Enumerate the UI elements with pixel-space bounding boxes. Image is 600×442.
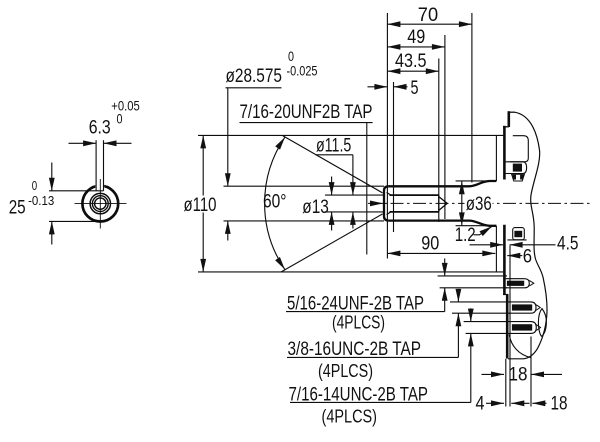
hole mouth chamfer bottom: [387, 212, 391, 215]
dia 36 extension top: [456, 180, 489, 182]
main centerline dash-dot: [368, 202, 592, 204]
dia 11.5 underline: [316, 154, 353, 156]
dim 90 line: [387, 252, 495, 254]
7/16-14 stub arrow down: [470, 308, 472, 321]
register face lower: [495, 226, 497, 272]
3/8 thread bar: [512, 304, 532, 310]
dim 5 right arrow: [394, 86, 408, 88]
5/16 underline: [286, 311, 445, 313]
dia 11.5 up arrow: [352, 212, 354, 229]
7/16 hole tip: [536, 325, 540, 331]
outer wall wavy curve: [508, 112, 547, 359]
rib leaf section: [538, 309, 546, 337]
7/16-14 underline: [290, 401, 471, 403]
dia 28.575 arrow up: [227, 221, 229, 241]
dim 43.5 line: [387, 70, 438, 72]
cone line lower: [281, 214, 382, 272]
end-view horizontal centerline: [75, 203, 127, 205]
5/16 hole tip: [529, 280, 534, 286]
lower seal housing outline: [513, 228, 525, 240]
register face upper: [495, 135, 497, 181]
60 deg arc: [265, 137, 285, 269]
svg-text:ø110: ø110: [184, 194, 217, 216]
label dia 28.575 underline: [226, 87, 282, 89]
hole edge extension top: [325, 194, 384, 196]
5/16 leader arrow up: [444, 288, 446, 312]
shaft outline top: [389, 181, 497, 186]
mounting face step top thick: [507, 111, 510, 127]
upper bolt hole thread bar: [513, 164, 522, 172]
svg-text:18: 18: [509, 364, 528, 386]
dia 13 up arrow: [331, 212, 333, 231]
svg-text:25: 25: [9, 197, 26, 218]
dia 110 dim line lower: [202, 213, 204, 272]
dia 36 dim line with arrows: [461, 181, 463, 225]
shaft top edge extension to left: [224, 185, 385, 187]
dia 13 down arrow: [331, 177, 333, 196]
dim 25 arrow bottom: [51, 221, 53, 244]
face jog connector: [503, 294, 509, 296]
3/8 hole edge top: [450, 301, 510, 303]
ext line x=531 lower: [530, 337, 532, 407]
drill point base: [438, 195, 440, 212]
svg-text:70: 70: [418, 4, 438, 26]
dia 110 dim line upper: [202, 135, 204, 195]
svg-text:-0.13: -0.13: [28, 193, 54, 208]
mounting face thick upper: [503, 126, 506, 180]
svg-text:ø11.5: ø11.5: [316, 134, 351, 156]
mounting face thick lower (jogged): [506, 295, 509, 359]
shaft bottom edge extension to left: [224, 220, 385, 222]
dim 18 upper right arrow: [531, 373, 562, 375]
3/8 stub arrow down: [457, 289, 459, 302]
keyway slot side left: [95, 140, 97, 191]
svg-text:(4PLCS): (4PLCS): [332, 311, 385, 332]
shaft end face: [384, 186, 389, 220]
svg-text:(4PLCS): (4PLCS): [318, 360, 373, 381]
tapped hole top line: [390, 194, 439, 196]
keyway slot white gap: [95, 182, 104, 191]
dim 4 right arrow: [511, 402, 529, 404]
label 7/16-20 underline: [240, 122, 373, 124]
dia 28.575 leader arrow down: [227, 88, 229, 186]
flange front face: [509, 246, 511, 359]
svg-text:7/16-20UNF2B TAP: 7/16-20UNF2B TAP: [240, 101, 373, 123]
dim 4.5 right arrow and tail: [510, 244, 556, 246]
3/8 hole edge bottom: [452, 312, 510, 314]
svg-text:60°: 60°: [263, 191, 287, 213]
svg-text:0: 0: [288, 49, 294, 64]
5/16 upper stub arrow: [444, 259, 446, 276]
svg-text:43.5: 43.5: [395, 50, 427, 72]
5/16 hole edge top: [438, 275, 507, 277]
extension line x=446.1 (49): [444, 35, 446, 219]
shaft outline bottom: [389, 221, 497, 226]
svg-text:18: 18: [551, 392, 568, 414]
lower recess corner curve: [509, 335, 531, 358]
5/16 boss outline: [505, 279, 529, 288]
1.2 leader arrow: [474, 226, 492, 234]
7/16-14 leader arrow up: [470, 333, 472, 402]
dim 49 line: [387, 46, 445, 48]
svg-text:3/8-16UNC-2B TAP: 3/8-16UNC-2B TAP: [288, 338, 422, 360]
lower seal black: [514, 231, 522, 237]
svg-text:ø28.575: ø28.575: [226, 65, 283, 87]
drill point cone: [439, 197, 447, 211]
tapped hole bottom line: [390, 211, 439, 213]
dia 11.5 leader down arrow: [352, 155, 354, 195]
svg-text:0: 0: [32, 179, 37, 193]
inner cavity contour upper: [510, 136, 529, 162]
svg-text:5: 5: [411, 77, 419, 99]
dia 36 text background: [465, 195, 493, 212]
extension line x=393.5 (5mm): [393, 82, 395, 232]
thread major circle: [92, 196, 108, 212]
mounting face thick middle: [503, 225, 506, 295]
3/8 leader arrow up: [457, 313, 459, 357]
label 7/16-20 leader vertical: [366, 123, 368, 255]
dim 18 upper left arrow: [482, 373, 505, 375]
svg-text:90: 90: [421, 233, 439, 255]
svg-text:6: 6: [523, 245, 532, 267]
7/16-20 tap arrow into hole: [371, 202, 384, 204]
hole edge extension bottom: [325, 211, 384, 213]
3/8 boss outline: [509, 302, 536, 313]
seal black right: [520, 175, 523, 180]
cone line upper: [282, 135, 382, 193]
extension line shaft end x=387.4: [386, 13, 388, 259]
step connector: [503, 126, 509, 128]
hole mouth chamfer top: [387, 192, 391, 195]
dim 6.3 arrows: [69, 142, 97, 144]
upper bolt hole outline: [505, 162, 527, 174]
dim 6 right arrow: [507, 255, 522, 257]
ext line x=510 lower: [509, 359, 511, 407]
dia 110 extension bottom: [198, 271, 503, 273]
end-view vertical centerline: [99, 179, 101, 229]
3/8 hole tip: [536, 305, 540, 311]
svg-text:-0.025: -0.025: [287, 64, 318, 79]
keyway slot side right: [103, 140, 105, 191]
extension line x=440.6 (43.5): [438, 59, 440, 223]
svg-text:4.5: 4.5: [557, 232, 579, 254]
3/8 underline: [287, 356, 458, 358]
shaft end-view outer circle: [82, 186, 118, 222]
5/16 hole edge bottom: [440, 287, 507, 289]
5/16 thread bar: [507, 281, 524, 286]
7/16 thread bar: [512, 324, 532, 330]
tapped hole chamfer circle: [90, 193, 110, 213]
thread minor circle: [95, 198, 106, 209]
svg-text:ø36: ø36: [466, 193, 492, 215]
dim 70 line: [387, 23, 472, 25]
svg-text:ø13: ø13: [302, 196, 329, 218]
dim 4.5 left arrow: [470, 244, 504, 246]
svg-text:0: 0: [117, 112, 123, 127]
dia 110 extension top: [198, 134, 503, 136]
lower seal seat line: [507, 239, 526, 241]
7/16 boss outline: [510, 322, 537, 334]
dim 4 left arrow: [486, 402, 504, 404]
7/16 hole edge top: [464, 321, 510, 323]
dim 18 lower arrow: [532, 402, 546, 404]
ext line x=505.3 lower: [505, 359, 507, 407]
svg-text:1.2: 1.2: [455, 224, 476, 246]
dim 25 arrow top: [51, 163, 53, 191]
extension line x=471.9 (70): [471, 13, 473, 183]
dim 25 extension top (keyway flat): [49, 190, 104, 192]
oil seal section upper: [512, 174, 525, 181]
svg-text:6.3: 6.3: [89, 118, 111, 139]
top edge: [508, 111, 515, 113]
seal black left: [513, 175, 516, 180]
dim 5 left arrow: [368, 86, 388, 88]
dim 25 extension bottom: [49, 220, 103, 222]
svg-text:(4PLCS): (4PLCS): [322, 405, 378, 426]
dia 36 extension bottom: [456, 225, 489, 227]
7/16 hole edge bottom: [466, 332, 510, 334]
svg-text:49: 49: [407, 26, 425, 48]
svg-text:4: 4: [476, 392, 485, 414]
